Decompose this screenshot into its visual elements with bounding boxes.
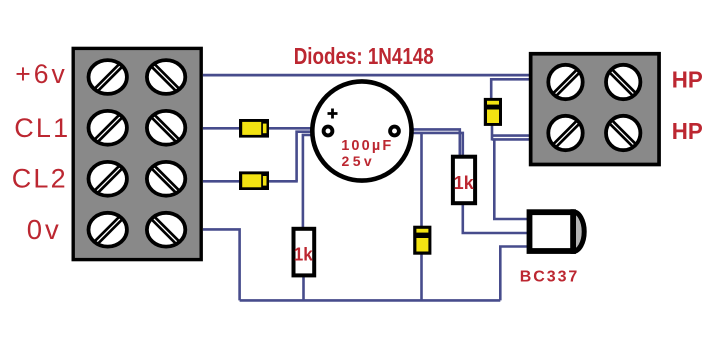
wire CL2 to D2 xyxy=(203,180,240,183)
wire +6v bus from left block to right block xyxy=(203,74,530,77)
wire collector riser xyxy=(494,139,527,219)
resistor R2 1k xyxy=(453,157,475,204)
wire cap plus terminal down to R1 top xyxy=(303,135,324,228)
wire CL1 to D1 xyxy=(203,127,240,130)
wire D4 top riser xyxy=(420,133,423,227)
svg-text:HP: HP xyxy=(672,118,703,144)
wire cap minus to R2 top (line a) xyxy=(399,129,460,156)
wire cap plus terminal down to D2 line xyxy=(297,132,324,182)
svg-text:Diodes: 1N4148: Diodes: 1N4148 xyxy=(294,43,434,69)
wire D3 bottom junction to HP row2 (doubled) xyxy=(492,125,530,141)
svg-text:1k: 1k xyxy=(454,173,475,193)
wire D4 bottom to ground bus xyxy=(420,254,423,300)
screw TB1 row4 col2 xyxy=(147,213,185,247)
screw TB2 row1 col1 xyxy=(548,65,582,99)
svg-text:CL2: CL2 xyxy=(12,163,66,193)
screw TB1 row3 col2 xyxy=(147,162,185,196)
svg-text:100µF: 100µF xyxy=(341,138,391,154)
svg-text:CL1: CL1 xyxy=(14,113,68,143)
screw TB2 row2 col2 xyxy=(606,116,640,150)
wire 0v to ground bus corner xyxy=(203,229,240,300)
svg-text:BC337: BC337 xyxy=(520,268,578,285)
screw TB2 row2 col1 xyxy=(548,116,582,150)
wire D2 to riser junction xyxy=(268,180,298,183)
wire R2 bottom to transistor base xyxy=(463,205,528,234)
screw TB1 row4 col1 xyxy=(89,213,127,247)
diode D1 (1N4148, CL1 branch) xyxy=(239,119,269,138)
screw TB1 row1 col2 xyxy=(147,60,185,94)
terminal pin left xyxy=(324,127,333,136)
capacitor C1 100uF 25v xyxy=(312,81,411,180)
diode D3 (1N4148, vertical near HP block) xyxy=(484,98,502,126)
screw TB2 row1 col2 xyxy=(606,65,640,99)
diode D4 (1N4148, vertical middle) xyxy=(413,226,431,255)
svg-text:+6v: +6v xyxy=(15,59,65,89)
terminal block TB2 (right, 4-way HP) xyxy=(531,54,659,165)
svg-text:1k: 1k xyxy=(294,244,314,265)
screw TB1 row2 col1 xyxy=(89,111,127,145)
svg-text:25v: 25v xyxy=(342,153,372,169)
wire D1 to cap plus terminal xyxy=(268,127,324,130)
ground bus xyxy=(240,299,501,302)
wire cap minus to R2 top (line b) xyxy=(399,133,463,156)
plus marker xyxy=(328,109,338,119)
resistor R1 1k xyxy=(294,229,315,276)
wire R1 bottom to ground bus xyxy=(302,277,305,300)
screw TB1 row1 col1 xyxy=(89,60,127,94)
terminal pin right xyxy=(390,127,399,136)
terminal block TB1 (left, 8-way) xyxy=(73,48,201,259)
screw TB1 row2 col2 xyxy=(147,111,185,145)
transistor Q1 BC337 xyxy=(530,212,585,252)
wire branch from D3 top to HP top row xyxy=(491,79,530,99)
diode D2 (1N4148, CL2 branch) xyxy=(239,171,269,190)
wire emitter to ground bus xyxy=(500,247,527,301)
svg-text:HP: HP xyxy=(672,66,703,92)
screw TB1 row3 col1 xyxy=(89,162,127,196)
